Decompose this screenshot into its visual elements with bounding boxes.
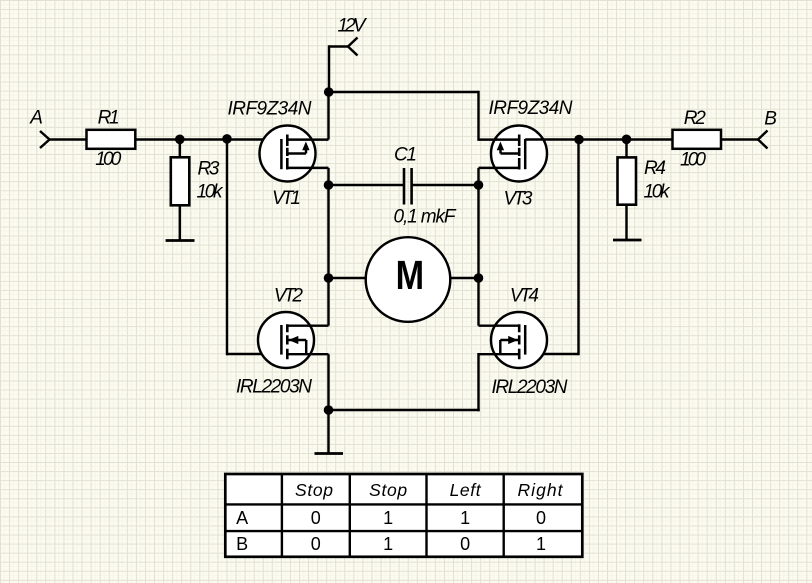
wire motor left <box>329 277 368 279</box>
svg-text:VT2: VT2 <box>274 286 303 307</box>
label VT1 <box>272 188 301 209</box>
node 1 junction <box>175 135 185 145</box>
motor M <box>366 237 451 322</box>
value 10k (R4) <box>644 182 672 203</box>
power pin 12V <box>348 38 358 56</box>
svg-text:VT1: VT1 <box>272 188 301 209</box>
wire bus down to VT3 source <box>477 92 479 140</box>
wire left bus node5 to motor node <box>327 185 329 278</box>
node 10 junction ground bus <box>324 405 334 415</box>
label VT2 <box>274 286 303 307</box>
value 100 (R1) <box>95 149 121 170</box>
svg-text:A: A <box>29 108 43 129</box>
wire VT2 gate lead <box>227 353 282 355</box>
svg-text:IRF9Z34N: IRF9Z34N <box>489 98 573 119</box>
wire node4 to R4 <box>625 140 627 159</box>
svg-text:R2: R2 <box>684 108 706 129</box>
wire top supply bus <box>329 91 479 93</box>
label R2 <box>684 108 706 129</box>
svg-text:0: 0 <box>460 534 470 554</box>
node 12V bus junction <box>324 87 334 97</box>
label VT4 <box>510 286 539 307</box>
node 2 junction <box>222 134 232 144</box>
svg-text:B: B <box>236 534 248 554</box>
svg-text:C1: C1 <box>394 145 417 166</box>
wire R3 to ground <box>179 205 181 240</box>
transistor VT4 N-channel MOSFET mirrored <box>479 312 548 368</box>
svg-text:10k: 10k <box>197 182 225 203</box>
svg-text:M: M <box>396 252 425 298</box>
node 4 junction <box>622 135 632 145</box>
wire node10 to ground <box>327 410 329 454</box>
wire node3 down to VT4 gate <box>577 140 579 355</box>
svg-text:IRL2203N: IRL2203N <box>236 377 312 398</box>
svg-text:Left: Left <box>450 480 482 500</box>
label IRL2203N of VT2 <box>236 377 312 398</box>
value 10k (R3) <box>197 182 225 203</box>
wire VT3 drain down to node7 <box>477 168 479 185</box>
wire 12V down to bus <box>328 47 330 93</box>
label C1 <box>394 145 417 166</box>
label IRF9Z34N of VT3 <box>489 98 573 119</box>
svg-text:1: 1 <box>460 508 470 528</box>
wire VT2 source down to node10 <box>327 354 329 410</box>
svg-text:R4: R4 <box>644 158 666 179</box>
transistor VT3 P-channel MOSFET mirrored <box>479 126 548 182</box>
node 5 junction C1 left <box>324 180 334 190</box>
svg-text:1: 1 <box>383 508 393 528</box>
svg-text:0,1 mkF: 0,1 mkF <box>394 207 457 228</box>
svg-text:IRL2203N: IRL2203N <box>492 377 568 398</box>
wire right bus node7 to motor node <box>477 185 479 278</box>
wire R4 to ground <box>625 205 627 240</box>
label A <box>29 108 43 129</box>
ground under R4 <box>613 239 642 242</box>
svg-text:10k: 10k <box>644 182 672 203</box>
label IRF9Z34N of VT1 <box>228 99 312 120</box>
svg-text:100: 100 <box>680 150 706 171</box>
label B <box>764 109 777 130</box>
wire VT1 source to bus <box>327 92 329 140</box>
wire node1 to node2 <box>180 138 227 140</box>
svg-text:0: 0 <box>536 508 546 528</box>
wire node4 to R2 <box>627 138 674 140</box>
wire node2 to VT1 gate <box>227 138 282 140</box>
capacitor C1 <box>404 168 412 205</box>
node 7 junction C1 right <box>474 180 484 190</box>
svg-text:0: 0 <box>311 534 321 554</box>
wire A to R1 <box>49 138 88 140</box>
label 12V <box>338 16 368 37</box>
wire C1 left <box>329 184 404 186</box>
label R4 <box>644 158 666 179</box>
wire bottom bus <box>329 409 479 411</box>
svg-text:IRF9Z34N: IRF9Z34N <box>228 99 312 120</box>
label IRL2203N of VT4 <box>492 377 568 398</box>
svg-text:Stop: Stop <box>295 480 333 500</box>
wire right bus down to VT4 drain <box>477 278 479 326</box>
wire C1 right <box>412 184 479 186</box>
svg-text:12V: 12V <box>338 16 368 37</box>
label R1 <box>98 108 120 129</box>
wire R1 to node1 <box>135 138 180 140</box>
label R3 <box>198 159 220 180</box>
resistor R1 <box>87 130 136 149</box>
svg-text:R1: R1 <box>98 108 120 129</box>
resistor R2 <box>673 130 722 149</box>
node 9 junction motor right <box>474 273 484 283</box>
wire motor right <box>449 277 479 279</box>
svg-text:1: 1 <box>536 534 546 554</box>
transistor VT2 N-channel MOSFET <box>258 312 329 368</box>
wire 12V pin stub <box>329 45 349 47</box>
ground main <box>315 452 344 455</box>
wire node1 to R3 <box>179 140 181 159</box>
wire VT4 source down to bus <box>477 354 479 410</box>
output pin B <box>758 131 768 149</box>
value 0,1 mkF (C1) <box>394 207 457 228</box>
node 8 junction motor left <box>324 273 334 283</box>
svg-text:B: B <box>764 109 777 130</box>
transistor VT1 P-channel MOSFET <box>260 126 329 182</box>
svg-text:Right: Right <box>518 480 564 500</box>
wire VT1 drain down to node5 <box>327 168 329 185</box>
input pin A <box>40 131 50 148</box>
node 3 junction <box>574 135 584 145</box>
svg-text:100: 100 <box>95 149 121 170</box>
truth table <box>225 474 582 557</box>
value 100 (R2) <box>680 150 706 171</box>
svg-text:0: 0 <box>311 508 321 528</box>
ground under R3 <box>166 239 195 242</box>
svg-text:Stop: Stop <box>369 480 407 500</box>
svg-text:VT4: VT4 <box>510 286 539 307</box>
resistor R4 <box>618 157 637 204</box>
wire left bus down to VT2 drain <box>327 278 329 326</box>
svg-text:R3: R3 <box>198 159 220 180</box>
wire VT4 gate lead <box>525 353 578 355</box>
resistor R3 <box>171 157 190 205</box>
wire node2 down to VT2 gate <box>226 140 228 355</box>
svg-text:1: 1 <box>383 534 393 554</box>
svg-text:A: A <box>236 508 248 528</box>
svg-text:VT3: VT3 <box>504 189 533 210</box>
label VT3 <box>504 189 533 210</box>
wire node3 to node4 <box>579 138 627 140</box>
wire VT3 gate lead <box>525 138 578 140</box>
wire R2 to B <box>721 138 759 140</box>
